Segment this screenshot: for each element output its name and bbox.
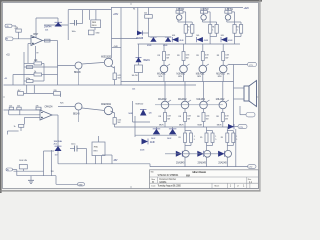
svg-text:MUR120: MUR120 [136,103,145,105]
svg-text:-15V: -15V [113,160,118,162]
svg-text:Tuesday, August 08, 2000: Tuesday, August 08, 2000 [158,185,182,188]
svg-text:5W: 5W [118,78,121,80]
svg-text:5W: 5W [206,119,209,121]
svg-text:5W: 5W [205,58,208,60]
svg-text:MUR: MUR [159,124,164,126]
svg-text:10k 1W: 10k 1W [132,75,138,77]
svg-text:5W: 5W [187,119,190,121]
svg-text:Sheet: Sheet [214,185,219,188]
svg-text:MUR: MUR [198,124,203,126]
svg-text:OP27: OP27 [33,34,39,36]
svg-text:R1: R1 [212,27,214,29]
svg-text:5W: 5W [225,119,228,121]
svg-text:R1: R1 [188,27,190,29]
svg-text:5W: 5W [118,122,121,124]
svg-text:1: 1 [194,136,195,138]
svg-text:R5: R5 [179,137,181,139]
svg-text:MM: MM [186,174,190,177]
svg-text:2SA1943: 2SA1943 [218,161,227,164]
svg-text:2SA1943: 2SA1943 [198,161,207,164]
svg-text:100K LIN: 100K LIN [19,160,27,162]
svg-text:GC08-1: GC08-1 [159,182,167,184]
svg-text:1: 1 [237,30,238,32]
svg-text:BAV21: BAV21 [144,59,151,62]
svg-text:OPA134: OPA134 [45,106,54,109]
svg-text:1: 1 [215,136,216,138]
svg-text:R5: R5 [221,137,223,139]
svg-text:REG1: REG1 [92,25,97,27]
svg-text:1N4744A: 1N4744A [54,140,63,143]
svg-text:5W: 5W [186,58,189,60]
svg-text:1: 1 [212,30,213,32]
svg-text:REG: REG [94,151,98,153]
svg-text:R5: R5 [200,137,202,139]
svg-text:R1: R1 [133,9,135,11]
svg-text:1N4148: 1N4148 [136,38,144,40]
svg-text:2SA1943: 2SA1943 [176,161,185,164]
svg-text:+42V: +42V [244,7,250,10]
svg-text:MUR: MUR [217,124,222,126]
svg-text:5W: 5W [167,119,170,121]
svg-text:Document Number: Document Number [159,178,176,181]
svg-text:5: 5 [194,139,195,141]
svg-text:1N4744: 1N4744 [44,26,52,28]
svg-text:1: 1 [188,30,189,32]
svg-text:SYMASC IC STB8634: SYMASC IC STB8634 [158,174,179,177]
svg-text:5W: 5W [225,58,228,60]
svg-text:1: 1 [236,136,237,138]
svg-text:BD139: BD139 [74,72,81,74]
svg-text:5: 5 [215,139,216,141]
svg-text:Gilbert Classic: Gilbert Classic [192,171,207,174]
svg-text:5: 5 [236,139,237,141]
svg-text:MJE15031: MJE15031 [101,104,112,106]
svg-text:BD140: BD140 [73,114,80,116]
svg-text:ZD1: ZD1 [45,29,48,31]
svg-text:Date:: Date: [151,185,156,188]
svg-text:5W: 5W [166,58,169,60]
svg-text:MUR: MUR [179,124,184,126]
svg-text:R1: R1 [237,27,239,29]
svg-text:+15V: +15V [113,13,119,16]
